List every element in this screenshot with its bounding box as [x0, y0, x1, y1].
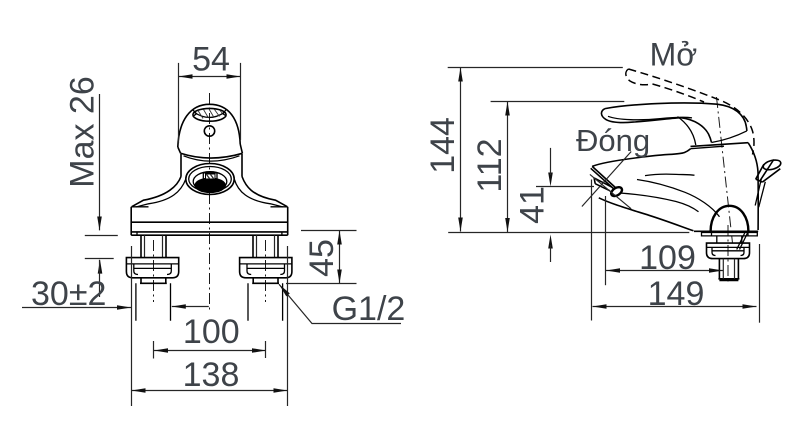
base bottom edge	[694, 230, 758, 232]
right nut band	[240, 263, 292, 265]
aerator dark opening	[194, 178, 226, 194]
svg-text:45: 45	[303, 239, 341, 277]
right inner flare	[234, 179, 283, 207]
dashed open handle lower edge	[653, 84, 705, 102]
dim 30±2 counter arrow	[172, 304, 186, 309]
ext 100 left	[153, 341, 155, 359]
dim 41 shaft lower	[550, 245, 552, 262]
dim 112 ext top	[491, 101, 625, 103]
side nut	[707, 243, 750, 259]
base left corner seg	[132, 206, 149, 208]
svg-text:G1/2: G1/2	[332, 290, 406, 328]
aerator body	[594, 178, 611, 191]
outlet ring 2	[189, 167, 232, 192]
right nut inner	[247, 264, 285, 275]
cap junction lower	[691, 146, 725, 149]
aerator X mark	[582, 152, 631, 209]
svg-text:100: 100	[183, 313, 240, 351]
base right corner seg	[271, 206, 288, 208]
popup rod below deck	[737, 233, 748, 250]
collar arc	[184, 156, 240, 161]
body side right	[241, 154, 243, 177]
svg-text:109: 109	[639, 239, 696, 277]
centerline left shank	[153, 240, 155, 302]
dim Max26 tick2	[85, 258, 114, 260]
dim 41 shaft upper	[550, 148, 552, 175]
left stud tube	[136, 283, 171, 321]
dim 54 ext right	[240, 63, 242, 140]
flange	[702, 233, 758, 236]
dim 30±2 counter leader	[172, 306, 209, 308]
left inner flare	[136, 179, 186, 207]
dashed open handle tab	[626, 69, 653, 85]
base mid line	[131, 221, 288, 223]
dim 112 line	[507, 102, 509, 233]
right tailpiece	[252, 278, 279, 284]
cap junction upper	[691, 143, 749, 147]
left nut band	[126, 263, 178, 265]
handle dome	[178, 104, 240, 147]
recess hatch	[198, 109, 224, 119]
right shank tube	[253, 235, 278, 257]
right nut	[240, 258, 292, 278]
dim 149 ext left	[591, 180, 593, 321]
body neck bump	[645, 174, 695, 175]
base left edge	[130, 207, 132, 235]
centerline vertical front view	[209, 93, 211, 310]
dim 45 ext top	[301, 230, 357, 232]
left outer flare	[132, 177, 182, 207]
dim 109 line	[606, 270, 723, 272]
dim 138 line	[132, 390, 288, 392]
dim 109 ext left	[605, 196, 607, 285]
dim 54 line	[179, 76, 241, 78]
dim Max26 arrow up	[98, 260, 103, 274]
spout top edge	[592, 149, 690, 167]
svg-text:41: 41	[514, 186, 552, 224]
lever top edge	[605, 103, 747, 131]
left shank tube threads	[145, 235, 163, 257]
dim 112 arrows	[505, 102, 510, 233]
svg-text:149: 149	[648, 275, 705, 313]
base bottom tab right	[281, 232, 283, 235]
dim 30±2 leader	[22, 307, 131, 309]
body right edge	[748, 143, 758, 230]
handle cap left side	[178, 147, 181, 153]
centerline right shank	[265, 240, 267, 302]
dim 54 arrows	[179, 74, 241, 79]
spout blend curve	[637, 180, 720, 217]
deck line	[448, 232, 689, 234]
dim 149 ext right	[759, 244, 761, 323]
dim G1/2 leader	[279, 284, 401, 323]
lever tab inner line	[608, 116, 692, 120]
base right edge	[287, 207, 289, 235]
dim 144 line	[460, 68, 462, 232]
base bottom line1	[131, 231, 288, 233]
dim G1/2 arrow	[279, 284, 290, 296]
handle cap bottom arc	[181, 153, 243, 158]
dim 45 arrows	[337, 231, 342, 284]
right stud tube	[248, 283, 283, 321]
aerator insert bracket	[203, 173, 217, 179]
spout underside outer	[599, 198, 694, 231]
base bottom tab left	[136, 232, 138, 235]
dim 100 arrows	[154, 348, 266, 353]
outlet ring 3	[193, 172, 227, 192]
handle top recess ellipse	[193, 108, 226, 121]
aerator highlight	[206, 174, 216, 179]
spout tip face	[591, 166, 616, 189]
dim 138 ext right	[287, 246, 289, 406]
dim 109 arrows	[606, 268, 723, 273]
dim 144 ext top	[448, 67, 623, 69]
dim 30±2 arrow	[117, 305, 131, 310]
dim 144 arrows	[458, 68, 463, 232]
dim 41 ext line	[536, 186, 594, 188]
indicator circle	[204, 126, 214, 136]
body side left	[180, 154, 182, 177]
recess notch left	[193, 110, 196, 116]
base bottom line2	[131, 234, 288, 236]
base dome bump	[711, 206, 749, 232]
dim 45 ext bottom	[286, 283, 357, 285]
popup knob	[762, 158, 782, 171]
right outer flare	[242, 177, 288, 207]
svg-text:Mở: Mở	[650, 37, 698, 73]
aerator hatch	[207, 175, 214, 179]
dim Max26 tick1	[85, 235, 118, 237]
dim 149 arrows	[593, 304, 757, 309]
spout underside inner	[620, 193, 699, 212]
dim 54 ext left	[178, 63, 180, 143]
svg-text:112: 112	[471, 138, 509, 192]
outlet ring outer	[186, 164, 234, 195]
dashed open handle top	[629, 69, 755, 155]
dim Max26 shaft lower	[99, 260, 101, 297]
right shank tube threads	[257, 235, 275, 257]
lever inner s-curve	[678, 117, 696, 145]
dim 41 arrow up	[548, 235, 553, 249]
dim 41 arrow down	[548, 173, 553, 187]
dim Max26 arrow down	[97, 217, 102, 231]
dim Max26 shaft upper	[99, 94, 101, 230]
shank collar	[717, 236, 742, 243]
lever underside	[681, 118, 712, 143]
side nut inner	[712, 247, 744, 255]
svg-text:144: 144	[424, 117, 462, 174]
side tailpiece threads	[723, 259, 734, 279]
lever rear bottom edge	[712, 131, 747, 143]
aerator end ring	[610, 185, 624, 198]
left nut inner	[134, 264, 172, 275]
side nut band	[707, 246, 750, 248]
popup knob cone	[756, 160, 781, 183]
svg-text:138: 138	[183, 356, 240, 394]
svg-text:Đóng: Đóng	[576, 123, 650, 158]
svg-text:Max 26: Max 26	[64, 76, 102, 188]
shank centerline	[727, 225, 729, 285]
cartridge axis centerline	[717, 97, 733, 243]
recess notch right	[223, 110, 226, 115]
popup rod	[755, 179, 765, 207]
dim 45 line	[339, 231, 341, 284]
ext 100 right	[265, 341, 267, 358]
dim 138 arrows	[132, 388, 288, 393]
svg-text:54: 54	[192, 41, 230, 79]
side tailpiece	[718, 259, 739, 281]
dim 138 ext left	[131, 246, 133, 406]
lever thumb tab	[601, 109, 681, 123]
recess inner arc	[195, 112, 225, 117]
handle cap right side	[240, 144, 242, 153]
left shank tube	[141, 235, 166, 257]
dim 149 line	[593, 306, 757, 308]
dim 100 line	[154, 350, 266, 352]
left nut	[126, 258, 178, 278]
left tailpiece	[140, 278, 167, 284]
